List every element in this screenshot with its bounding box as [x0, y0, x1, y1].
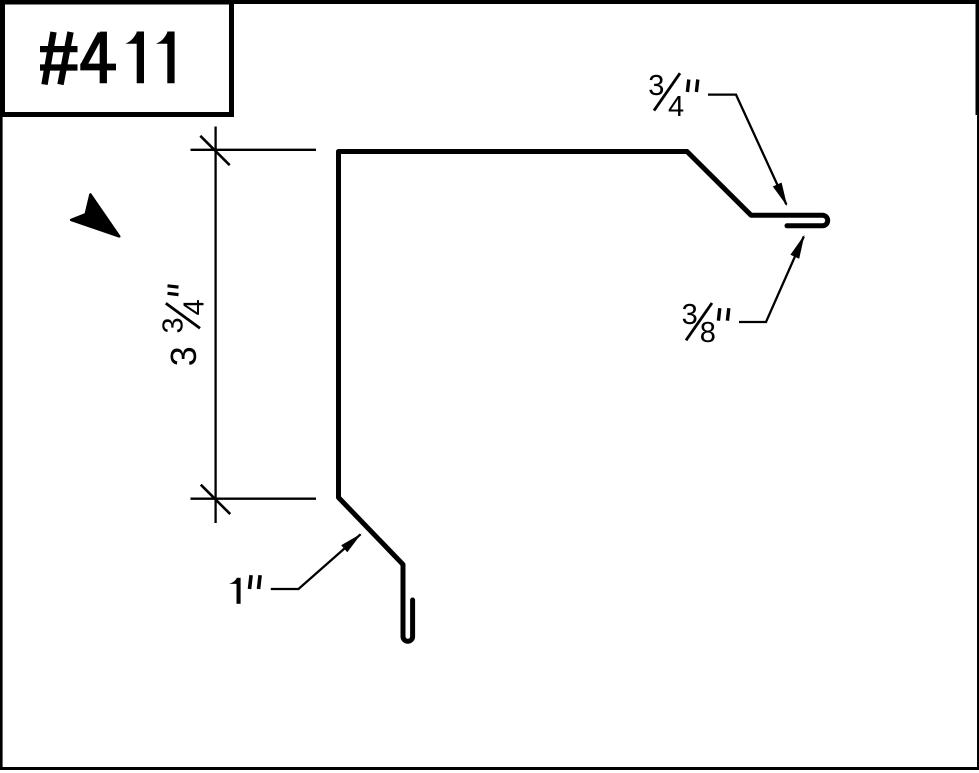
- svg-text:4: 4: [668, 91, 684, 123]
- svg-text:3: 3: [158, 317, 190, 333]
- svg-text:8: 8: [700, 317, 716, 349]
- svg-text:4: 4: [178, 299, 210, 315]
- svg-text:3: 3: [163, 346, 204, 366]
